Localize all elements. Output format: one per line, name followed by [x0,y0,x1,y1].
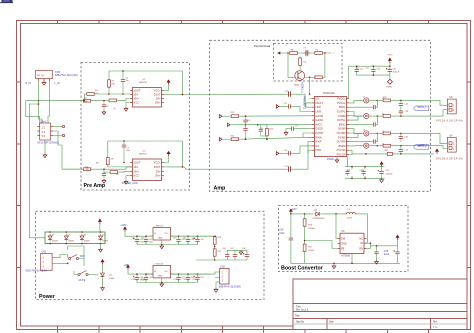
svg-text:TPA3116D2: TPA3116D2 [323,92,336,95]
wire spkrR- to conn [392,133,448,143]
wire C40 bottom [290,242,292,263]
wire [187,242,189,245]
capacitor C48 [243,252,249,259]
svg-text:B3B-PH-K-S(LF)(SN): B3B-PH-K-S(LF)(SN) [219,287,241,289]
net flag pop in [278,51,281,54]
capacitor C53 [194,275,200,282]
svg-text:C44: C44 [191,239,194,241]
svg-text:Rev. Inq 1.0: Rev. Inq 1.0 [296,310,309,312]
svg-text:1OUT: 1OUT [134,89,141,93]
svg-text:C16: C16 [284,150,288,152]
wire [376,133,378,141]
junction bridge top [49,231,51,233]
svg-text:C12: C12 [284,103,288,105]
wire [376,256,378,260]
junction in [370,242,372,244]
power flag vcc right [436,149,439,154]
svg-text:GVDD: GVDD [315,127,323,131]
svg-text:D3: D3 [68,234,70,236]
svg-text:VO: VO [165,271,168,273]
wire pop rail [277,52,331,54]
wire gvdd b [293,146,312,153]
wire [197,242,199,245]
diode D1 [101,271,105,279]
wire R14 top [258,125,267,127]
junction R5 bottom [108,93,110,95]
junction rail1 [187,235,189,237]
svg-text:10n: 10n [126,80,129,82]
wire [397,240,399,246]
ground bridge [99,248,103,252]
svg-text:C17: C17 [295,125,299,127]
wire gvdd pin [296,128,312,130]
wire [364,176,366,178]
svg-text:47k: 47k [95,93,98,95]
wire pop base [288,53,295,77]
svg-text:3 4: 3 4 [42,131,46,134]
ground U1 [335,159,339,163]
svg-text:PVCCR: PVCCR [337,153,346,157]
wire [371,99,382,101]
title block light divider [293,323,467,325]
svg-text:2OUT: 2OUT [154,165,161,169]
power flag boost out [396,235,399,240]
svg-text:C22: C22 [393,68,396,70]
wire [299,56,301,59]
wire [381,167,383,169]
wire BSNL [349,123,371,125]
wire mute b [88,274,95,276]
op-amp U3 [130,159,164,181]
svg-text:Date: Date [329,321,335,324]
window tab fragment [2,0,13,3]
wire reg1 gnd rail [137,244,198,246]
capacitor C52 [186,275,190,282]
svg-text:PH 1x3: PH 1x3 [37,75,45,77]
wire ac input bus [29,104,45,238]
junction bridge top [66,231,68,233]
resistor R16 [303,218,306,228]
wire BSPL [349,106,371,108]
junction pop a [287,52,289,54]
wire C17 gnd [286,129,289,131]
wire [215,282,217,288]
wire CN4 gnd [44,140,46,154]
resistor RL4 [382,144,392,147]
junction spkrR+ [400,145,402,147]
wire SD [310,98,312,100]
svg-text:C45: C45 [192,238,196,240]
svg-text:2OUT: 2OUT [154,93,161,97]
svg-text:47k: 47k [111,159,114,161]
svg-text:C21: C21 [366,68,370,70]
wire [400,140,402,143]
junction gnd1 [161,244,163,246]
net flag avcc [227,123,230,126]
wire [376,246,378,250]
diode D2 [48,234,52,242]
wire [226,259,228,260]
junction rail2 [187,273,189,275]
wire ch1 out [164,93,286,95]
svg-text:CN2: CN2 [220,266,225,269]
wire sw1 a [67,255,69,258]
svg-text:PBTL: PBTL [315,148,322,152]
capacitor C10 [286,92,293,96]
wire [108,89,110,95]
wire [260,125,262,127]
Pop Removal box [274,44,343,82]
wire c row top [227,250,247,252]
svg-text:C40: C40 [279,230,284,232]
svg-text:L7815CV: L7815CV [155,225,164,227]
inductor L1 [362,98,371,103]
capacitor C35 [378,169,384,176]
wire [234,259,236,260]
junction [351,166,353,168]
boost IC U6 [338,233,367,253]
wire spkrL- to conn [392,110,448,116]
wire [178,242,180,245]
junction sw node [335,213,337,215]
wire bridge to sw [67,246,69,250]
svg-text:PGND: PGND [327,158,334,161]
net port SPKR L [414,106,429,111]
resistor R7 [108,99,118,102]
wire [122,84,124,94]
svg-text:PVCCR: PVCCR [337,148,346,152]
resistor R18 [213,236,216,246]
junction avcc [257,124,259,126]
svg-text:22uF: 22uF [279,233,285,235]
wire C12 to LINN [293,106,312,111]
svg-text:VCC+: VCC+ [154,89,161,93]
net flag agnd1 [276,105,279,108]
svg-text:1n: 1n [114,108,116,110]
junction sw [67,263,69,265]
wire boost rail b [322,213,345,215]
svg-text:10uH: 10uH [347,218,353,220]
resistor R2 [82,168,92,171]
wire pop right [324,53,325,77]
svg-text:R18: R18 [218,237,222,239]
svg-text:C25: C25 [405,104,408,106]
net flag gain1 [219,138,222,141]
wire D1 up [102,265,104,271]
wire [234,250,236,252]
wire [371,115,382,117]
op-amp U2 [130,88,164,108]
wire jog [349,133,358,137]
wire OUTPL jog [349,100,362,103]
wire pvcc rail [352,153,434,155]
ground CN5 [42,81,46,85]
wire sw1 b [68,246,84,259]
wire [364,167,366,169]
wire PLIMIT [303,133,312,137]
svg-text:1N5399: 1N5399 [84,240,90,242]
wire [215,277,220,279]
wire boost gnd rail [291,262,400,264]
svg-text:VCC+: VCC+ [154,161,161,165]
junction [364,166,366,168]
svg-text:C18: C18 [360,68,363,70]
ground diamond PGND top [387,79,392,84]
svg-text:C53: C53 [200,277,203,279]
svg-text:C43: C43 [173,238,177,240]
frame zone ticks [57,21,59,24]
wire to CN2 [211,272,220,274]
svg-text:1N5399: 1N5399 [68,240,74,242]
junction L4 out [377,133,379,135]
capacitor C44 [186,237,190,244]
svg-text:KF128-5.08-2P-AA: KF128-5.08-2P-AA [436,158,463,161]
junction fb top ch1 [122,70,124,72]
power flag D1 [101,260,104,265]
svg-text:C50: C50 [149,277,152,279]
svg-text:C30: C30 [405,137,408,139]
wire [103,178,105,179]
power flag +18V b [127,265,130,270]
svg-text:R_IN: R_IN [26,82,32,85]
junction [364,178,366,180]
resistor R14 [266,127,269,137]
svg-text:RINP: RINP [315,140,321,144]
svg-text:C43: C43 [181,239,184,241]
connector CN5 [36,70,53,81]
wire vcc+ flag [164,85,169,91]
svg-text:BSPR: BSPR [339,144,346,148]
svg-text:C19: C19 [377,68,380,70]
ground CN2 [214,288,218,292]
capacitor C33 [345,169,349,176]
wire spkrL+ to conn [392,100,448,105]
ground op2 [124,180,128,184]
svg-text:RINN: RINN [315,135,321,139]
wire pvccr1 [349,150,352,154]
junction bridge bottom [49,243,51,245]
wire decouple top [345,166,385,168]
junction fb link [84,100,86,102]
resistor R11 [314,76,324,79]
capacitor C30 [399,134,403,141]
connector CN4 [37,123,53,140]
wire BSNR [349,141,371,143]
wire C40 top [290,214,292,236]
svg-text:C11: C11 [285,166,288,168]
svg-text:R2: R2 [86,166,88,168]
capacitor C2 [102,102,106,109]
wire boost out [371,245,398,247]
svg-text:GND: GND [158,238,163,240]
wire pop to linp [309,77,311,94]
wire sw [336,214,338,239]
wire U1 gnd [336,157,338,159]
wire [95,274,99,276]
junction C4 bottom [122,93,124,95]
wire OUTNL jog [349,115,362,117]
junction avcc mid [245,124,247,126]
svg-text:R13: R13 [231,135,235,137]
wire decouple bottom [345,177,385,179]
capacitor C45 [194,237,200,244]
wire gain1 b [240,137,312,139]
svg-text:NE5532: NE5532 [139,154,148,156]
wire boost rail a [291,213,313,215]
svg-text:EN: EN [359,247,363,251]
junction pvcc [365,153,367,155]
wire inv row ch2 [108,165,130,168]
power flag +18V a [124,227,127,232]
junction r16 [304,213,306,215]
wire fb to U6 [305,241,338,249]
svg-text:100n: 100n [149,241,153,243]
junction out ch1 [182,94,184,96]
wire OUTNR jog [349,132,362,134]
wire [123,149,125,162]
capacitor C38 [394,249,400,256]
svg-text:L_IN: L_IN [55,82,60,85]
wire [397,246,399,250]
svg-text:+18V: +18V [121,224,127,227]
resistor R8 [289,52,299,55]
junction bridge bottom [66,243,68,245]
power flag PVCC top [389,58,392,63]
svg-text:AVCC: AVCC [315,122,322,126]
wire fb link ch1 [84,94,86,101]
wire CN4 pin2 [53,126,62,128]
svg-text:GND: GND [158,276,163,278]
diode D4 [80,234,84,242]
wire fb row ch1 [96,93,131,95]
wire pgnd down [346,157,348,167]
wire to R4 [104,169,109,172]
wire fb rail ch1 [109,71,183,95]
wire [400,107,402,110]
capacitor C22 [386,67,392,74]
wire [178,280,180,283]
svg-text:C39: C39 [384,251,389,253]
wire avcc row [230,123,312,125]
capacitor C46 [225,252,229,259]
resistor R9 [314,52,324,55]
svg-text:D5: D5 [102,234,104,236]
svg-text:1N5399: 1N5399 [52,240,58,242]
junction spkrL+ [400,100,402,102]
power flag +15V op1 [167,80,170,85]
wire D1 dn [102,279,104,286]
inductor L2 [362,114,371,119]
wire [245,133,247,140]
wire gain0 a [222,115,230,117]
svg-text:BSNR: BSNR [338,127,345,131]
wire reg2 rail [128,270,211,274]
junction rail2 [178,273,180,275]
svg-text:8.2kΩ: 8.2kΩ [308,250,314,252]
svg-text:VCC-: VCC- [134,101,140,105]
svg-text:C41: C41 [132,238,136,240]
svg-text:1N5399: 1N5399 [102,240,108,242]
svg-text:GAIN1: GAIN1 [315,118,323,122]
wire [147,273,153,275]
svg-text:X005-7WV-02-N2SN: X005-7WV-02-N2SN [25,271,47,273]
junction bridge top [81,231,83,233]
capacitor C40 [289,236,293,243]
wire jog [349,116,358,120]
svg-text:PVCCL: PVCCL [337,101,346,105]
regulator U8 [151,228,173,241]
svg-text:C51: C51 [173,279,177,281]
wire bridge gnd [100,244,102,248]
svg-text:C49: C49 [132,279,136,281]
capacitor C14 [243,118,247,125]
junction ch1 in [103,100,105,102]
svg-text:Titel: .: Titel: . [296,305,303,308]
svg-text:C31: C31 [405,150,408,152]
wire to C12 [279,105,286,107]
junction spkrL- [400,115,402,117]
junction pop b [324,52,326,54]
resistor R1 [82,99,92,102]
capacitor C6 [102,171,106,178]
junction spkrR- [400,133,402,135]
svg-text:C5: C5 [127,148,129,150]
junction [373,74,375,76]
svg-text:220kΩ: 220kΩ [308,228,315,230]
capacitor C43 [176,237,180,244]
diode D5 [99,234,103,242]
svg-text:R1: R1 [85,98,87,100]
junction [333,263,335,265]
switch SW1 [68,255,78,260]
wire gain1 a [222,138,230,140]
svg-text:10: 10 [382,114,384,116]
svg-text:IN: IN [360,241,363,245]
capacitor C41 [133,237,139,244]
title block frame [293,279,467,330]
wire CN3 pin2 [52,262,68,264]
svg-text:MT3608: MT3608 [342,255,351,257]
svg-text:PLIMIT: PLIMIT [315,131,324,135]
svg-text:C9: C9 [304,47,306,49]
ground boost a [332,265,336,269]
svg-text:OUTPL: OUTPL [337,110,346,114]
junction L1 out [377,100,379,102]
bridge rectifier loop [45,232,105,244]
ground C39 [375,260,379,264]
ground C17 [284,131,288,135]
regulator U9 [151,265,173,278]
svg-text:C42: C42 [141,238,145,240]
wire fb node [304,228,306,244]
wire [122,71,124,77]
wire pvccr2 [349,153,352,156]
junction [373,65,375,67]
junction rail2 [136,273,138,275]
junction [400,153,402,155]
capacitor C23 [371,105,378,109]
capacitor C28 [371,139,378,143]
junction [351,263,353,265]
ground C2 [102,110,106,114]
wire [245,124,247,126]
wire ch2 out [164,167,286,169]
junction [389,65,391,67]
wire [389,75,391,79]
wire [400,146,402,148]
junction boost in [290,213,292,215]
wire gvdd a [279,152,286,154]
